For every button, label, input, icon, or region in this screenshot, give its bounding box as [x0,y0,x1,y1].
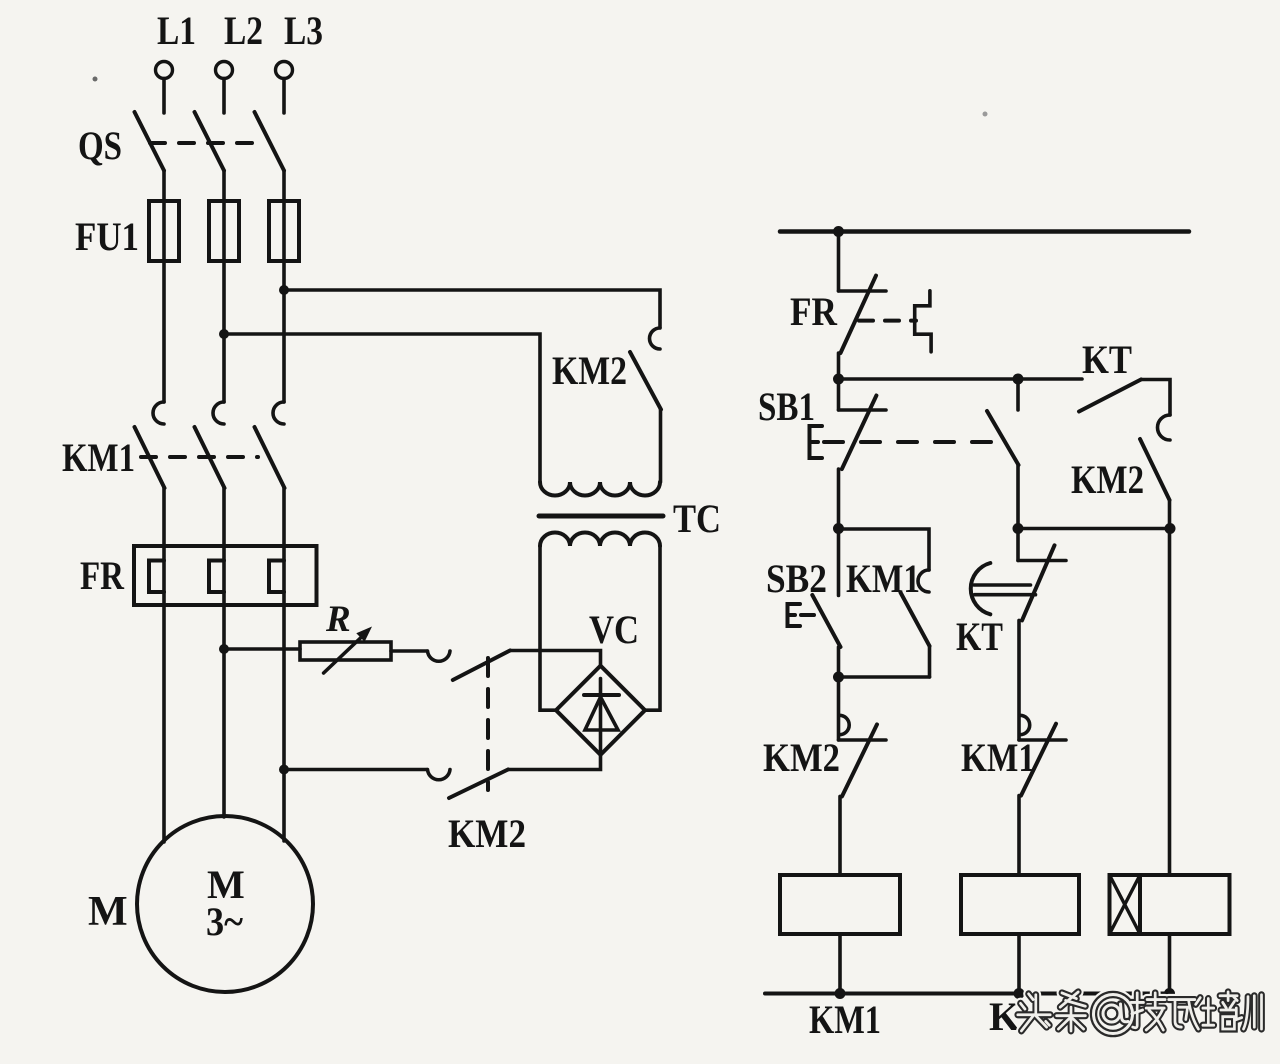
FR NC contact blade [841,276,877,353]
SB2 actuator E [788,604,801,626]
motor M circle [137,816,313,992]
node KM1-selflock top [1013,374,1024,385]
contactor KM1 pole2 fixed contact arc [213,402,224,424]
KM2 linkage dashed [486,658,490,790]
svg-text:KM1: KM1 [846,556,920,601]
pushbutton SB1 NC: wire [837,379,841,410]
node right rail [1165,523,1176,534]
node top bus to FR [833,226,844,237]
node on phase2 to TC branch [219,329,229,339]
KT NC blade [1022,545,1055,620]
contactor KM1 pole1 fixed contact arc [153,402,164,424]
wire KM2 upper pole to VC top [510,651,601,666]
contactor KM1 pole2 blade [195,427,225,488]
wire phase3 node to KM2 lower pole [284,768,427,772]
contactor KM2 lower pole fixed arc [428,770,451,780]
stray speck 2 [983,112,988,117]
wire phase2 KM1 to FR [222,488,226,605]
wire KM2 blade to TC primary right [659,410,663,483]
wire phase1 KM1 to FR [162,488,166,605]
wire KM2 lower pole to VC bottom [508,755,601,770]
svg-text:L2: L2 [224,8,263,53]
svg-text:3~: 3~ [206,899,243,944]
switch QS pole 1 blade [135,112,165,171]
wire KM1 coil to bottom bus [838,934,842,994]
wire phase1 FR to motor [162,605,166,842]
wire phase1 QS to fuse to KM1 [162,171,166,403]
contactor KM2 TC-branch fixed arc [650,328,660,349]
wire SB2 bottom [837,647,841,677]
SB1 seat bar [839,408,887,412]
KM2 NC blade [842,724,877,796]
contactor KM2 upper pole fixed arc [428,651,451,661]
coil KM1 [780,875,900,934]
thermal relay FR box [134,546,317,605]
wire KM1 selflock bottom [928,646,932,677]
watermark stroke core [1018,992,1262,1034]
KM2 selflock blade [1140,439,1170,500]
svg-text:KM2: KM2 [448,811,526,856]
wire KM2 selflock down to KT coil [1168,500,1172,875]
time relay KT NC delayed contact: wire [1016,529,1020,561]
wire SB1 to node [837,469,841,528]
svg-text:TC: TC [673,496,721,541]
watermark halo [1018,992,1262,1034]
SB1 blade [842,396,877,470]
SB1 NO contact (KM2 branch): wire [1016,379,1020,410]
control top bus [780,229,1189,234]
KM1 selflock fixed arc [918,570,929,592]
svg-text:KM2: KM2 [763,735,840,780]
KM1 linkage dashed [141,455,258,459]
svg-text:R: R [325,599,351,640]
svg-text:KM2: KM2 [1071,457,1144,502]
wire middle rail [1018,527,1170,531]
node KT coil bus [1164,988,1175,999]
svg-text:KT: KT [956,614,1003,659]
rectifier VC diamond [556,666,645,755]
wire bus to FR contact [837,232,841,292]
node SB1 bottom [833,523,844,534]
svg-text:SB2: SB2 [766,556,827,601]
wire KM2 coil to bottom bus [1017,934,1021,994]
switch QS pole 3 blade [255,112,285,171]
KT NC seat bar [1018,559,1066,563]
node phase2 to R branch [219,644,229,654]
contactor KM2 selflock fixed arc [1158,415,1171,440]
resistor R body [300,642,391,660]
FR trip linkage dashed [859,319,916,323]
wire R to KM2 upper pole [391,649,427,653]
SB1 linkage dashed [824,440,992,444]
KT delay cup arc [971,563,991,614]
svg-text:L3: L3 [284,8,323,53]
SB2 blade [812,595,840,647]
wire KM2 NC to KM1 coil [838,796,842,875]
SB2 linkage dash [801,613,814,617]
VC diode [584,679,619,754]
node phase3 to brake branch [279,765,289,775]
contactor KM2 upper pole blade [453,651,510,681]
KT delay cup lines [974,583,1031,587]
KM2 NC hook arc [840,715,850,734]
svg-text:SB1: SB1 [758,384,815,429]
wire TC secondary left to VC left [540,546,556,710]
KM1 selflock blade [901,593,930,647]
fuse FU1 pole3 [269,201,299,261]
parallel box bottom wire [839,675,930,679]
contactor KM1 pole3 fixed contact arc [273,402,284,424]
svg-text:M: M [88,889,128,935]
svg-text:KM2: KM2 [552,348,627,393]
node KM2 coil bus [1014,988,1025,999]
node box bottom [833,672,844,683]
node SB1 top [833,374,844,385]
svg-text:FR: FR [790,289,838,334]
svg-text:QS: QS [78,123,122,168]
transformer TC secondary winding [540,533,660,547]
transformer TC primary winding [540,482,660,496]
wire KT contact to corner [1141,380,1170,416]
bottom bus [765,992,1172,996]
wire phase3 QS to fuse to KM1 [282,171,286,403]
node middle rail [1013,523,1024,534]
wire rail to KT branch [839,377,1083,381]
wire phase2 FR to motor [222,605,226,817]
watermark ink outline [1018,992,1262,1034]
node KM1 coil bus [835,988,846,999]
wire phase2 node to resistor R [224,647,300,651]
svg-text:KT: KT [1082,337,1132,382]
wire KT NC to KM1 NC [1017,620,1021,740]
stray speck 1 [93,77,98,82]
svg-text:L1: L1 [157,8,196,53]
QS linkage dashed [150,141,263,145]
coil KM2 [961,875,1079,934]
FR trip element [915,291,931,352]
pushbutton SB2 NO: wire [837,529,841,596]
svg-text:FR: FR [80,553,125,598]
wire KM1 NC to KM2 coil [1017,796,1021,875]
KM1 NC seat bar [1019,738,1066,742]
FR heater element pole1 [149,561,164,593]
KM2 NC seat bar [839,738,887,742]
SB2/KM1 parallel box top wire [839,529,930,570]
svg-text:KM1: KM1 [809,997,881,1042]
wire phase3 to KM2-TC contact [284,290,660,328]
wire phase3 KM1 to FR [282,488,286,605]
resistor R arrow [324,638,361,674]
time relay KT NO contact blade [1079,380,1141,412]
contactor KM2 TC-branch blade [630,352,661,410]
wire to KM2 NC contact [837,677,841,740]
contactor KM1 pole3 blade [255,427,285,488]
terminal L2 [216,62,233,114]
SB1 NO blade [987,411,1019,465]
wire phase2 to TC primary left [224,334,540,482]
node on phase3 to TC branch [279,285,289,295]
fuse FU1 pole2 [209,201,239,261]
fuse FU1 pole1 [149,201,179,261]
coil KT with delay box [1110,875,1230,934]
contactor KM2 lower pole blade [449,770,508,799]
transformer TC core bar [539,514,663,519]
wire phase3 FR to motor [282,605,286,841]
svg-text:KM1: KM1 [62,435,135,480]
wire phase2 QS to fuse to KM1 [222,171,226,403]
KM1 NC hook arc [1020,715,1030,734]
contactor KM1 pole1 blade [135,427,165,488]
FR heater element pole2 [209,561,224,593]
svg-text:KM1: KM1 [961,735,1035,780]
KM1 NC blade [1021,724,1056,796]
wire TC secondary right to VC right [645,546,660,710]
terminal L3 [276,62,293,114]
svg-text:FU1: FU1 [75,214,139,259]
wire FR to SB1 node [837,353,841,379]
FR heater element pole3 [269,561,284,593]
SB1 button actuator E [810,426,823,458]
FR NC contact seat bar [839,289,887,293]
wire KT coil to bottom bus [1168,934,1172,994]
wire to node [1016,465,1020,529]
svg-text:VC: VC [589,607,639,652]
terminal L1 [156,62,173,114]
switch QS pole 2 blade [195,112,225,171]
